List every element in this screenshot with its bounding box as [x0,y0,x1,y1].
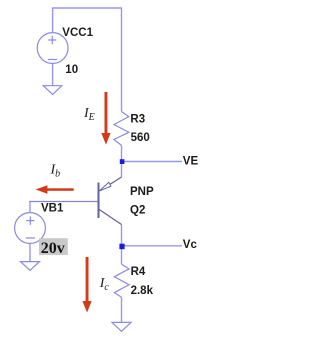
svg-text:VB1: VB1 [41,203,64,215]
svg-text:560: 560 [131,132,150,144]
svg-text:Ic: Ic [99,276,110,293]
svg-text:R3: R3 [130,113,145,125]
svg-text:Q2: Q2 [130,204,145,216]
svg-text:IE: IE [83,106,95,123]
svg-text:20v: 20v [41,240,65,257]
svg-text:2.8k: 2.8k [131,285,154,297]
svg-text:Ib: Ib [50,163,61,180]
svg-text:Vc: Vc [183,239,198,251]
svg-text:R4: R4 [131,266,146,278]
svg-text:VCC1: VCC1 [62,27,93,39]
svg-text:PNP: PNP [130,186,154,198]
svg-text:10: 10 [65,64,78,76]
svg-text:VE: VE [183,156,199,168]
